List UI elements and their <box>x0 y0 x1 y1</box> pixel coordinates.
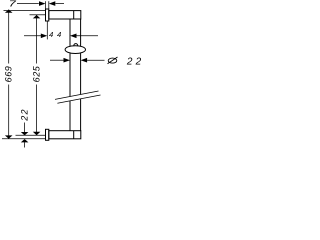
svg-text:22: 22 <box>126 56 145 67</box>
svg-text:669: 669 <box>4 66 14 83</box>
svg-text:7: 7 <box>9 0 17 9</box>
svg-text:625: 625 <box>32 65 42 82</box>
svg-text:22: 22 <box>20 108 30 121</box>
svg-text:44: 44 <box>49 30 65 39</box>
